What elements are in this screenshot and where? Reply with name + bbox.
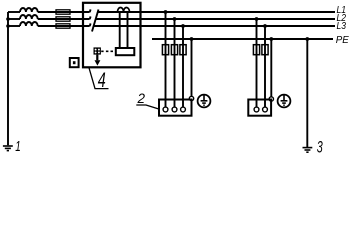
terminal circle 2 [172, 107, 177, 112]
svg-text:L3: L3 [337, 21, 347, 32]
meter earthing stem [96, 55, 98, 61]
switch: fixed contact tick L1 [89, 9, 92, 12]
ground electrode 3 (bottom right) [303, 148, 313, 153]
switch: three-pole disconnector linkage [92, 10, 99, 32]
unit 2 (socket group) drop v1 from L1 [165, 12, 167, 107]
enclosure box 4 (input device) [83, 3, 141, 68]
node: tap L2 [255, 17, 259, 21]
meter (energy counter) symbol [94, 47, 101, 54]
node: tap PE [190, 37, 194, 41]
wire: phase L1 left segment [8, 11, 20, 13]
terminal circle 2 [263, 107, 268, 112]
terminal circle 1 [163, 107, 168, 112]
svg-text:2: 2 [137, 90, 146, 106]
earthing point symbol (circle with earth) at unit 1 [198, 95, 211, 108]
svg-text:3: 3 [317, 137, 323, 155]
inductor winding on L1 [20, 8, 38, 12]
drop v2 from L2 [174, 19, 176, 107]
leader line for label 4 [89, 68, 109, 89]
wire: phase L2 left segment [8, 18, 20, 20]
PE drop v4 [191, 39, 193, 96]
unit box 2 (appliance) [159, 100, 192, 116]
drop v2 from L3 [264, 26, 266, 107]
node: tap L3 [181, 24, 185, 28]
PE corner terminal circle [189, 96, 193, 100]
switch: fixed contact tick L2 [89, 16, 92, 19]
fuse on v1 [162, 45, 168, 55]
inductor winding on L3 [20, 22, 38, 26]
svg-text:4: 4 [98, 69, 106, 92]
terminal circle 1 [254, 107, 259, 112]
node: L2 tap on source bus [6, 17, 10, 21]
dashed link meter to terminal box [101, 50, 113, 52]
svg-text:PE: PE [336, 35, 349, 46]
node: tap L2 [173, 17, 177, 21]
node: PE ground tap [305, 37, 309, 41]
node: tap PE [269, 37, 273, 41]
terminal circle 3 [181, 107, 186, 112]
wire: PE conductor [152, 38, 333, 40]
wire: L2 to switch [38, 18, 90, 20]
unit box (appliance 2) [248, 100, 271, 116]
inductor winding on L2 [20, 15, 38, 19]
wire: L3 from switch to right end [94, 25, 335, 27]
metering terminal box [116, 48, 135, 55]
fuse on v2 [171, 45, 177, 55]
PE corner terminal circle [269, 97, 273, 101]
drop v3 from L3 [182, 26, 184, 107]
current transformer T1: secondary lead right [127, 12, 129, 48]
small square symbol (service entrance mark) [70, 58, 79, 67]
fuse F1 on L1 [56, 10, 70, 14]
meter earthing triangle [95, 60, 101, 65]
switch: fixed contact tick L3 [89, 23, 92, 26]
unit 3 drop v1 from L2 [256, 19, 258, 107]
wire: L2 from switch to right end [96, 18, 335, 20]
fuse F3 on L3 [56, 24, 70, 28]
fuse on v2 [262, 45, 268, 55]
node: L3 tap on source bus [6, 24, 10, 28]
earthing point symbol (circle with earth) at unit 2 [278, 95, 291, 108]
leader line for label 2 [136, 105, 159, 109]
fuse on v1 [253, 45, 259, 55]
wire: source neutral bus (left vertical) [7, 12, 9, 145]
fuse F2 on L2 [56, 17, 70, 21]
current transformer T1: primary arcs on L1 [118, 8, 130, 12]
node: tap L1 [164, 10, 168, 14]
current transformer T1: secondary lead left [119, 12, 121, 48]
svg-text:1: 1 [15, 138, 21, 155]
wire: L1 from switch to right end [98, 11, 335, 13]
wire: phase L3 left segment [8, 25, 20, 27]
node: tap L3 [263, 24, 267, 28]
fuse on v3 [180, 45, 186, 55]
wire: PE re-earthing drop [306, 39, 308, 147]
wire: L1 to switch [38, 11, 90, 13]
ground electrode 1 (bottom left) [3, 146, 13, 151]
wire: L3 to switch [38, 25, 90, 27]
PE drop v3 [270, 39, 272, 97]
